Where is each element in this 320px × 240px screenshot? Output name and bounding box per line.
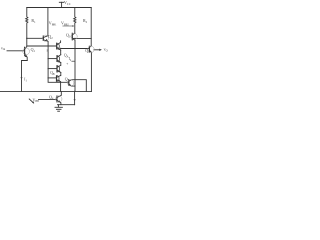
svg-text:vO: vO	[104, 47, 108, 53]
svg-text:VBB1: VBB1	[49, 21, 57, 27]
svg-text:+: +	[66, 62, 68, 66]
svg-text:R1: R1	[31, 18, 36, 24]
svg-text:Q5: Q5	[65, 76, 70, 82]
svg-text:Q3: Q3	[66, 32, 71, 38]
svg-text:Q2: Q2	[48, 34, 53, 40]
svg-text:I1: I1	[24, 78, 27, 83]
svg-text:vin: vin	[1, 45, 6, 51]
svg-text:VCC: VCC	[64, 0, 71, 6]
svg-text:VBB2: VBB2	[61, 21, 69, 27]
svg-text:I2: I2	[69, 57, 72, 62]
svg-text:Q1: Q1	[31, 47, 36, 53]
svg-text:R2: R2	[83, 18, 88, 24]
svg-text:QB: QB	[50, 71, 55, 76]
